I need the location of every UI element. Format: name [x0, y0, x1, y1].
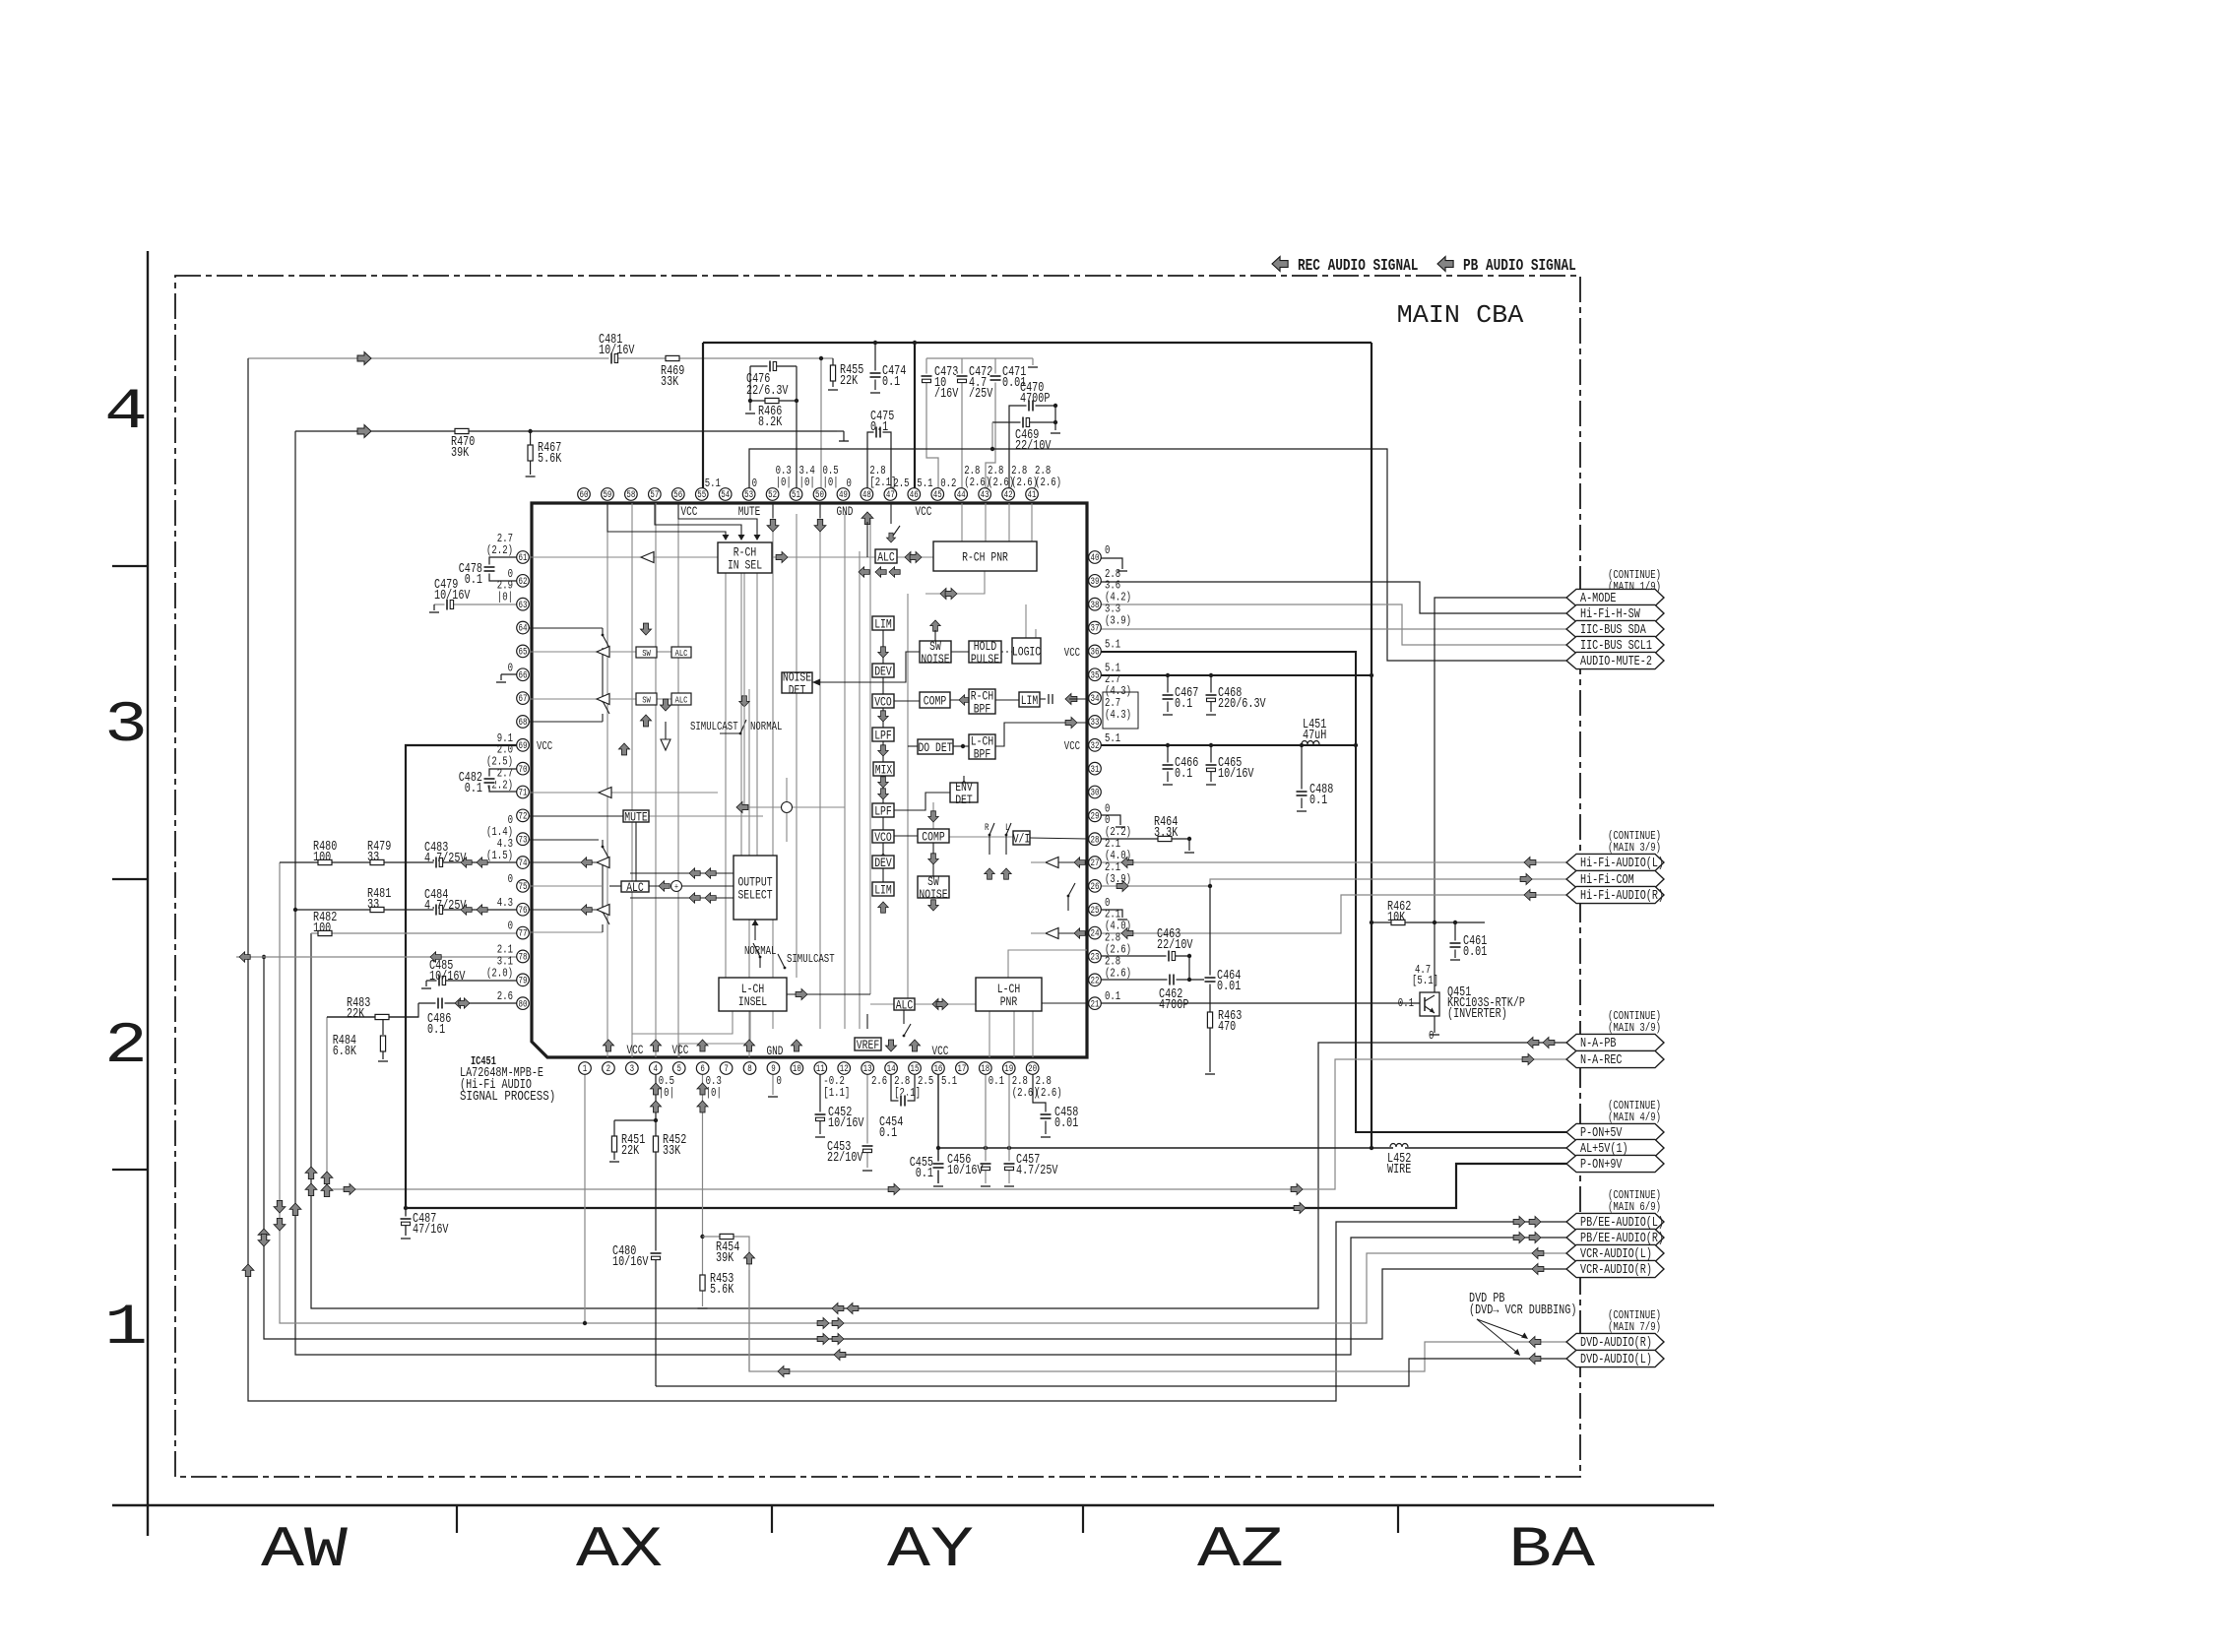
svg-text:5.1: 5.1: [917, 477, 932, 490]
block ALC bottom: [894, 998, 915, 1010]
svg-text:4.3: 4.3: [497, 896, 513, 910]
arrow near sum: [736, 801, 748, 812]
wire L-CH INSEL bottom feeds: [632, 1011, 733, 1034]
inductor L452: [1390, 1144, 1408, 1147]
wire pin 39 to Hi-Fi-H-SW: [1101, 582, 1566, 613]
resistor R484: [380, 1036, 385, 1051]
svg-text:INSEL: INSEL: [738, 994, 767, 1009]
wire HOLD-SW link: [951, 651, 969, 653]
switch NORMAL/SIMULCAST upper: [739, 732, 742, 735]
wire NOISE DET link: [812, 652, 920, 682]
svg-text:33: 33: [367, 851, 379, 865]
resistor R483: [375, 1014, 389, 1019]
svg-text:VCR-AUDIO(L): VCR-AUDIO(L): [1580, 1247, 1652, 1262]
svg-text:/25V: /25V: [969, 387, 993, 402]
block COMP 2: [918, 829, 949, 843]
svg-text:54: 54: [721, 490, 730, 501]
svg-text:PNR: PNR: [1000, 994, 1018, 1009]
wire internal column pin58: [631, 503, 633, 1057]
capacitor C479: [445, 599, 454, 610]
wire pin 29 stub: [1101, 815, 1120, 825]
wire pin 79 C485 net: [426, 980, 523, 982]
arrow x634: [618, 743, 629, 755]
svg-text:[5.1]: [5.1]: [1412, 974, 1438, 987]
block DEV 2: [872, 856, 894, 868]
block V/I: [1013, 831, 1030, 845]
zone tick bottom AZ/BA: [1397, 1505, 1399, 1533]
svg-text:IIC-BUS SDA: IIC-BUS SDA: [1580, 623, 1646, 638]
svg-text:39K: 39K: [451, 446, 470, 461]
svg-text:VCC: VCC: [916, 505, 932, 519]
svg-text:A-MODE: A-MODE: [1580, 592, 1617, 606]
svg-text:22K: 22K: [840, 374, 859, 389]
svg-text:0.1: 0.1: [870, 420, 888, 435]
svg-text:VCC: VCC: [932, 1045, 949, 1058]
svg-text:58: 58: [626, 490, 635, 501]
bus arrows left side: [242, 1264, 254, 1277]
wire R453 bottom: [702, 1291, 704, 1306]
capacitor C487: [400, 1217, 412, 1226]
svg-text:10/16V: 10/16V: [612, 1255, 649, 1270]
svg-text:4.7/25V: 4.7/25V: [424, 852, 467, 866]
capacitor C483: [434, 857, 443, 868]
svg-text:6.8K: 6.8K: [333, 1045, 357, 1059]
connector Hi-Fi-COM: [1566, 870, 1664, 887]
wire C466 column: [1167, 745, 1169, 782]
svg-text:PB/EE-AUDIO(L): PB/EE-AUDIO(L): [1580, 1216, 1664, 1231]
wire L-CH PNR to pin 21: [1042, 1002, 1087, 1004]
wire chain MIX-LPF2: [882, 776, 884, 803]
svg-text:10/16V: 10/16V: [828, 1116, 864, 1131]
wire chain LPF-MIX: [882, 741, 884, 762]
svg-text:0.1: 0.1: [916, 1167, 933, 1181]
wire C469 link: [992, 421, 1055, 423]
svg-text:41: 41: [1028, 490, 1037, 501]
svg-text:51: 51: [792, 490, 800, 501]
wire VCC thick top horizontal: [703, 342, 1372, 344]
svg-text:40: 40: [1091, 553, 1100, 564]
svg-text:62: 62: [519, 577, 528, 588]
connector IIC-BUS SCL1: [1566, 636, 1664, 653]
wire switch chain upper-left: [523, 627, 603, 629]
connector Hi-Fi-AUDIO(R): [1566, 886, 1664, 903]
svg-text:52: 52: [768, 490, 777, 501]
svg-text:IIC-BUS SCL1: IIC-BUS SCL1: [1580, 639, 1652, 654]
capacitor C475: [874, 426, 883, 438]
block ALC 1b: [671, 693, 691, 705]
block COMP 1: [920, 692, 950, 708]
svg-text:[1.1]: [1.1]: [823, 1086, 850, 1100]
wire R484 column: [382, 1017, 384, 1035]
svg-text:37: 37: [1091, 624, 1100, 635]
svg-text:5: 5: [676, 1064, 681, 1075]
wire pin 71 buffer: [523, 792, 718, 794]
connector P-ON+9V: [1566, 1155, 1664, 1172]
svg-text:VCC: VCC: [627, 1044, 644, 1057]
capacitor C457: [1003, 1162, 1015, 1171]
svg-text:10/16V: 10/16V: [429, 970, 466, 985]
IC451 right pins 40-21: [1089, 551, 1102, 564]
block R-CH PNR: [933, 541, 1037, 571]
wire COMP2 left: [894, 835, 918, 837]
svg-text:V/I: V/I: [1013, 832, 1031, 847]
wire internal column pin57: [655, 503, 657, 1057]
wire C475 bridge pins 48/47: [867, 432, 891, 488]
connector Hi-Fi-AUDIO(L): [1566, 854, 1664, 870]
wire pin 26 to Hi-Fi-COM: [1101, 879, 1566, 886]
svg-text:28: 28: [1091, 835, 1100, 846]
svg-text:22/10V: 22/10V: [1015, 439, 1052, 454]
wire pin 65 row SW ALC: [523, 651, 597, 653]
svg-text:72: 72: [519, 811, 528, 822]
block DEV 1: [872, 664, 894, 677]
svg-text:(2.2): (2.2): [486, 543, 513, 557]
arrow above SW1: [640, 623, 651, 635]
svg-text:33K: 33K: [663, 1144, 681, 1159]
svg-text:0.01: 0.01: [1217, 980, 1241, 994]
resistor R470: [455, 428, 469, 433]
block DO DET: [918, 739, 953, 754]
svg-text:0: 0: [1429, 1029, 1434, 1043]
wire DVD-AUDIO(L) route: [656, 1359, 1566, 1386]
svg-text:64: 64: [519, 624, 528, 635]
svg-text:22/10V: 22/10V: [827, 1151, 863, 1166]
svg-text:0.01: 0.01: [1054, 1116, 1078, 1131]
wire VCR-AUDIO(L) route: [280, 862, 1566, 1323]
wire internal column pin50: [819, 518, 821, 1029]
legend arrow REC: [1272, 257, 1288, 272]
svg-text:5.1: 5.1: [1105, 637, 1120, 651]
wire pin 52 interior arrow: [767, 519, 779, 532]
capacitor C474: [869, 371, 881, 380]
block VREF: [855, 1038, 881, 1050]
arrow DVD note 2: [1477, 1319, 1517, 1353]
wire COMP1-BPF: [950, 699, 969, 701]
svg-text:29: 29: [1091, 811, 1100, 822]
svg-text:LIM: LIM: [1021, 693, 1039, 708]
arrow DVD note 1: [1477, 1319, 1525, 1337]
wire chain LPF2-VCO2: [882, 817, 884, 830]
wire ALC feedback arrows: [859, 567, 869, 577]
switch right area: [1067, 895, 1070, 898]
svg-text:66: 66: [519, 670, 528, 681]
wire internal column pin59: [606, 532, 608, 1057]
wire internal column x753: [740, 573, 742, 856]
block MUTE: [623, 810, 649, 822]
connector A-MODE: [1566, 589, 1664, 605]
svg-text:39K: 39K: [716, 1251, 734, 1266]
wire pin80 net: [418, 1002, 523, 1004]
svg-text:ALC: ALC: [877, 550, 895, 565]
wire L451 to VCC vertical: [1319, 744, 1356, 746]
resistor R452: [653, 1136, 658, 1152]
svg-text:32: 32: [1091, 741, 1100, 752]
svg-text:(1.5): (1.5): [486, 849, 513, 862]
svg-text:(2.6): (2.6): [1105, 966, 1131, 980]
capacitor C484: [434, 904, 443, 916]
sheet border left line: [147, 251, 149, 1536]
wire L-CH PNR top taps: [1008, 950, 1087, 978]
svg-text:69: 69: [519, 741, 528, 752]
capacitor C462: [1168, 974, 1177, 985]
svg-text:77: 77: [519, 929, 528, 940]
wire pin 9 stub: [772, 1068, 774, 1095]
resistor R481: [370, 907, 384, 912]
svg-text:3.3K: 3.3K: [1154, 826, 1179, 841]
svg-text:44: 44: [957, 490, 966, 501]
wire pin 35 VCC rail: [1101, 674, 1372, 676]
wire pin 28 R464 link: [1101, 838, 1189, 840]
connector PB/EE-AUDIO(R): [1566, 1229, 1664, 1245]
zone tick left 3/2: [112, 878, 148, 880]
wire pin 19 column C457: [1008, 1068, 1010, 1162]
svg-text:SELECT: SELECT: [737, 888, 772, 903]
connector N-A-REC: [1566, 1050, 1664, 1067]
block ALC top: [875, 549, 897, 563]
wire R483 horizontal: [327, 1016, 418, 1018]
svg-text:DO DET: DO DET: [918, 740, 952, 755]
svg-text:8: 8: [747, 1064, 752, 1075]
svg-text:4700P: 4700P: [1159, 998, 1188, 1013]
wire C461 column: [1454, 922, 1456, 941]
wire internal column x769: [756, 573, 758, 856]
wire chain DEV-VCO: [882, 677, 884, 694]
wire ALC to R-CH PNR: [897, 556, 933, 558]
svg-text:10/16V: 10/16V: [434, 589, 471, 604]
buffer to pin 24: [1046, 928, 1058, 939]
svg-text:0.2: 0.2: [940, 477, 956, 490]
block LIM 2: [1019, 692, 1040, 707]
svg-text:10: 10: [793, 1064, 801, 1075]
svg-text:43: 43: [981, 490, 989, 501]
wire VCR-AUDIO(R) route: [264, 957, 1566, 1339]
svg-text:NORMAL: NORMAL: [750, 720, 782, 733]
connector P-ON+5V: [1566, 1123, 1664, 1140]
svg-text:R: R: [985, 823, 989, 834]
wire pin 21 to Q451 base: [1101, 1002, 1420, 1004]
svg-text:10K: 10K: [1387, 911, 1406, 925]
svg-text:DET: DET: [955, 793, 973, 807]
block ALC 1a: [671, 647, 691, 658]
wire pin 72 MUTE link: [523, 815, 623, 817]
svg-text:0: 0: [1105, 543, 1110, 557]
svg-text:VCC: VCC: [681, 505, 698, 519]
wire R455 column: [832, 358, 834, 387]
wire ENV DET top: [963, 776, 965, 783]
svg-text:(2.6): (2.6): [1036, 1086, 1062, 1100]
wire P-ON+9V heavy route: [406, 1164, 1566, 1208]
wire R466 bottom link: [750, 400, 797, 402]
block VCO 2: [872, 830, 894, 843]
block ENV DET: [950, 783, 978, 802]
resistor R480: [318, 859, 332, 864]
wire P-ON+9V left vertical to pin 69: [406, 745, 523, 1208]
svg-text:AX: AX: [576, 1519, 663, 1583]
wire ALC left row: [609, 885, 621, 887]
wire R-CH IN SEL input 3: [678, 503, 757, 535]
svg-text:4700P: 4700P: [1020, 392, 1050, 407]
svg-text:[2.1]: [2.1]: [869, 476, 896, 489]
svg-text:24: 24: [1091, 929, 1100, 940]
legend arrow PB: [1437, 257, 1453, 272]
wire OUTPUT SELECT inputs: [630, 872, 734, 874]
arrow below LIM3: [878, 902, 888, 913]
wire pin 66 stub: [501, 673, 523, 675]
wire pin74 net: [280, 861, 523, 863]
resistor R469: [666, 355, 679, 360]
connector AL+5V(1): [1566, 1139, 1664, 1156]
svg-text:2.5: 2.5: [918, 1074, 933, 1088]
capacitor C464: [1204, 976, 1216, 985]
wire internal column x884: [869, 514, 871, 994]
zone tick bottom AX/AY: [771, 1505, 773, 1533]
capacitor C485: [437, 975, 446, 986]
svg-text:0.1: 0.1: [465, 573, 482, 588]
svg-text:/16V: /16V: [934, 387, 959, 402]
wire internal column pin8: [748, 689, 750, 1057]
svg-text:5.6K: 5.6K: [538, 452, 562, 467]
resistor R454: [720, 1234, 734, 1239]
capacitor C476: [768, 360, 777, 372]
svg-text:5.1: 5.1: [705, 477, 721, 490]
svg-text:0: 0: [752, 477, 757, 490]
wire C476/R466 left node: [749, 366, 751, 411]
wire pin 37 to IIC-BUS SDA: [1101, 628, 1566, 630]
svg-text:IN SEL: IN SEL: [728, 558, 762, 573]
svg-text:DVD-AUDIO(L): DVD-AUDIO(L): [1580, 1353, 1652, 1367]
svg-text:74: 74: [519, 858, 528, 869]
wire pin 61 input with buffer: [523, 556, 718, 558]
capacitor C466: [1162, 763, 1174, 772]
svg-text:220/6.3V: 220/6.3V: [1218, 697, 1266, 712]
svg-text:4: 4: [104, 381, 148, 445]
svg-text:47/16V: 47/16V: [413, 1223, 449, 1238]
wire LIM2 output cap arrow to pin 34: [1040, 698, 1046, 700]
capacitor C452: [814, 1112, 826, 1121]
switch chain pins 73-77: [523, 839, 599, 841]
wire C467 column: [1167, 675, 1169, 712]
resistor R467: [528, 445, 533, 461]
wire pin 24 to Hi-Fi-AUDIO(R): [1101, 895, 1566, 933]
svg-text:79: 79: [519, 976, 528, 986]
svg-text:2.6: 2.6: [871, 1074, 887, 1088]
svg-text:(4.3): (4.3): [1105, 708, 1131, 722]
block OUTPUT SELECT: [734, 856, 777, 920]
svg-text:(3.9): (3.9): [1105, 614, 1131, 628]
block L-CH BPF: [969, 734, 995, 759]
svg-text:65: 65: [519, 648, 528, 659]
wire C471 column to pin 43: [986, 358, 995, 488]
svg-text:|0|: |0|: [659, 1086, 674, 1100]
wire pin 48 interior arrows: [861, 512, 873, 525]
block L-CH PNR: [976, 978, 1042, 1011]
capacitor C470: [1027, 400, 1036, 412]
svg-text:60: 60: [580, 490, 589, 501]
svg-text:SIMULCAST: SIMULCAST: [787, 952, 835, 966]
svg-text:VREF: VREF: [857, 1038, 879, 1052]
connector AUDIO-MUTE-2: [1566, 652, 1664, 668]
IC451 body outline: [532, 503, 1087, 1057]
svg-text:0.01: 0.01: [1463, 945, 1487, 960]
svg-text:0: 0: [508, 661, 513, 674]
wire C474 column: [874, 343, 876, 390]
wire pin77 net: [311, 932, 523, 934]
wire ALC bottom row: [870, 1003, 894, 1005]
svg-text:(2.6): (2.6): [964, 476, 990, 489]
svg-text:61: 61: [519, 553, 528, 564]
svg-text:53: 53: [744, 490, 753, 501]
svg-text:22K: 22K: [621, 1144, 640, 1159]
svg-text:Hi-Fi-AUDIO(L): Hi-Fi-AUDIO(L): [1580, 857, 1664, 871]
svg-text:0: 0: [776, 1074, 781, 1088]
wire C482 bracket pins 70/71: [489, 769, 523, 792]
svg-text:47: 47: [886, 490, 895, 501]
svg-text:AUDIO-MUTE-2: AUDIO-MUTE-2: [1580, 655, 1652, 669]
wire LOGIC up taps: [1025, 604, 1027, 638]
resistor R464: [1158, 836, 1172, 841]
wire SW NOISE2 down: [928, 900, 938, 911]
wire pin 25 stub: [1101, 910, 1122, 918]
wire PB/EE-AUDIO(L) route: [248, 358, 1566, 1401]
wire Q451 emitter: [1434, 1014, 1435, 1033]
svg-text:1: 1: [104, 1297, 148, 1361]
wire pin 36 VCC to P-ON+5V: [1101, 652, 1566, 1132]
svg-text:22: 22: [1091, 976, 1100, 986]
svg-text:48: 48: [862, 490, 871, 501]
svg-text:0.1: 0.1: [879, 1126, 897, 1141]
svg-text:63: 63: [519, 601, 528, 611]
svg-text:(INVERTER): (INVERTER): [1447, 1007, 1507, 1022]
wire DO DET link: [953, 745, 969, 747]
svg-text:AY: AY: [887, 1519, 974, 1583]
svg-text:0.1: 0.1: [1398, 996, 1414, 1010]
wire DVD-AUDIO(R) route: [749, 1270, 1566, 1371]
svg-text:P-ON+9V: P-ON+9V: [1580, 1158, 1623, 1173]
block LIM 3: [872, 882, 894, 896]
svg-text:BPF: BPF: [974, 702, 991, 717]
wire pin 4 column: [655, 1068, 657, 1252]
block NOISE DET: [782, 672, 812, 693]
svg-text:NOISE: NOISE: [921, 652, 949, 667]
svg-text:5.6K: 5.6K: [710, 1283, 734, 1298]
svg-text:|0|: |0|: [799, 476, 815, 489]
svg-text:22/6.3V: 22/6.3V: [746, 384, 789, 399]
svg-text:LOGIC: LOGIC: [1012, 645, 1041, 660]
svg-text:0: 0: [508, 920, 513, 933]
resistor R451: [611, 1136, 616, 1152]
svg-text:75: 75: [519, 882, 528, 893]
svg-text:100: 100: [313, 921, 331, 936]
wire chain LIM-DEV: [882, 630, 884, 664]
svg-text:[2.1]: [2.1]: [894, 1086, 921, 1100]
capacitor C481: [609, 352, 618, 364]
svg-text:N-A-REC: N-A-REC: [1580, 1053, 1623, 1068]
svg-text:AZ: AZ: [1197, 1519, 1284, 1583]
wire R462 net: [1372, 921, 1485, 923]
svg-text:9: 9: [771, 1064, 776, 1075]
block R-CH BPF: [969, 689, 995, 714]
svg-text:42: 42: [1004, 490, 1013, 501]
wire pin 6 column: [702, 1068, 704, 1275]
svg-text:67: 67: [519, 694, 528, 705]
svg-text:(3.9): (3.9): [1105, 872, 1131, 886]
wire pin 20 column C458: [1033, 1068, 1046, 1112]
svg-text:22K: 22K: [347, 1007, 365, 1022]
IC451 bottom pins 1-20: [579, 1062, 592, 1075]
svg-text:NOISE: NOISE: [919, 887, 947, 902]
wire C476/R466 right node to pin 51: [796, 366, 797, 488]
svg-text:76: 76: [519, 906, 528, 917]
